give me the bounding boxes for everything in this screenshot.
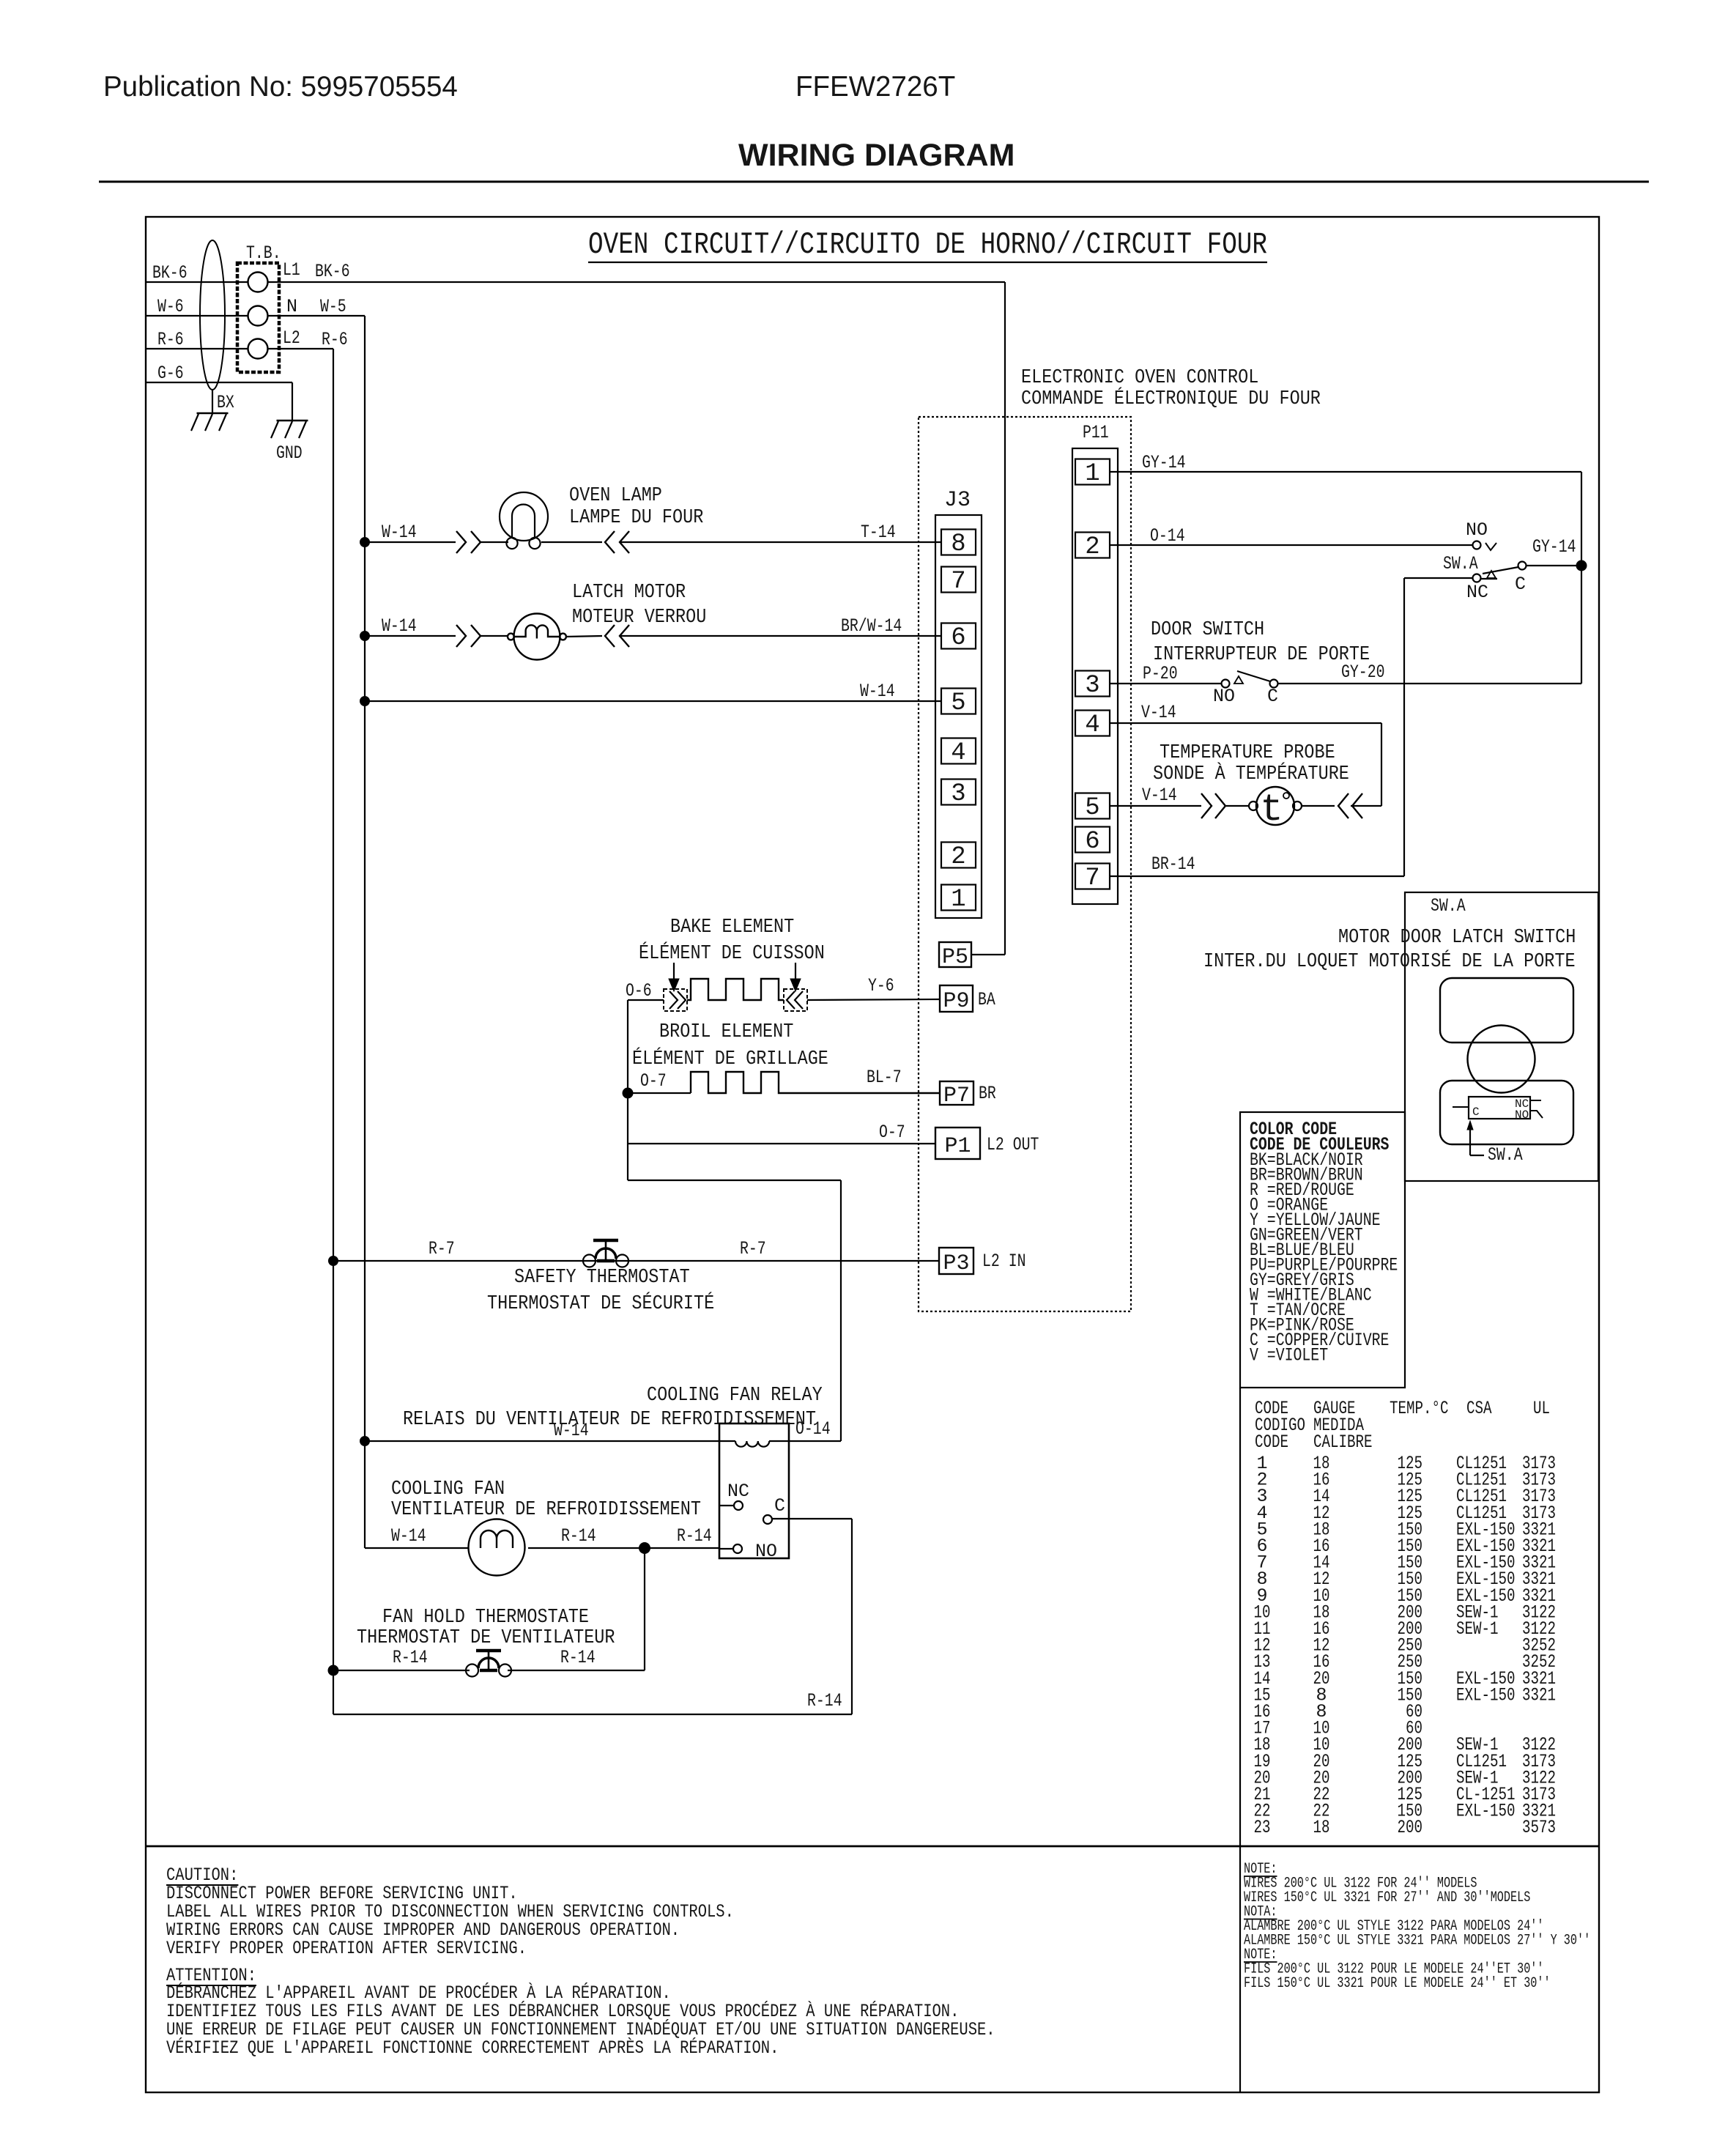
junction R-14 fan hold [328,1665,339,1676]
connector P5 [939,942,971,967]
svg-text:O-7: O-7 [879,1122,905,1143]
door switch NO terminal [1222,680,1230,688]
wire BR-14 [1110,875,1404,877]
wire BK-6 left [146,281,248,283]
svg-text:COOLING FAN RELAY: COOLING FAN RELAY [647,1385,823,1407]
svg-text:SW.A: SW.A [1488,1144,1523,1166]
svg-text:W-14: W-14 [554,1420,589,1441]
safety thermostat [583,1255,596,1267]
svg-text:R-14: R-14 [807,1690,842,1711]
svg-text:BX: BX [217,392,234,413]
J3 pin 2 [941,843,976,868]
wire R-14 vertical fan hold [644,1548,645,1670]
svg-text:SEW-1: SEW-1 [1456,1618,1499,1640]
wire lamp right [541,541,602,543]
svg-text:OVEN LAMP: OVEN LAMP [569,485,662,507]
J3 pin 5 [941,689,976,714]
svg-text:NC: NC [727,1481,749,1502]
relay contact NO [719,1548,733,1550]
svg-text:UL: UL [1533,1398,1550,1419]
wire BK-6 vertical down to P5 [1004,282,1006,955]
svg-text:R-7: R-7 [740,1238,766,1259]
svg-text:W-14: W-14 [391,1525,426,1547]
terminal N [248,306,268,326]
svg-text:C: C [774,1495,785,1517]
svg-text:EXL-150: EXL-150 [1456,1801,1516,1822]
ground BX [197,412,229,414]
electronic oven control dashed box [919,417,1131,1311]
svg-text:V-14: V-14 [1141,702,1176,723]
svg-text:NO: NO [755,1541,777,1562]
P11 pin 6 [1075,827,1110,853]
svg-text:BA: BA [978,989,995,1010]
wire W-14 to relay coil [365,1440,735,1442]
motor door latch switch box [1405,892,1598,1181]
svg-text:T-14: T-14 [861,522,896,543]
svg-text:GY-14: GY-14 [1142,452,1186,473]
connector << lamp [605,531,615,553]
P11 pin 1 [1075,459,1110,485]
svg-text:CSA: CSA [1466,1398,1492,1419]
wire G-6 down [292,382,293,421]
latch housing upper [1440,978,1573,1043]
svg-text:5: 5 [1085,794,1099,822]
svg-text:SONDE À TEMPÉRATURE: SONDE À TEMPÉRATURE [1153,762,1349,785]
junction broil element [623,1088,634,1099]
wire coil to O-14 vertical [769,1440,841,1442]
junction W-14 lamp [360,537,370,547]
svg-text:t: t [1260,788,1283,832]
J3 pin 3 [941,780,976,805]
connector P11 body [1072,448,1118,904]
wire R-14 vertical from C [851,1519,853,1714]
svg-text:P3: P3 [943,1251,969,1276]
wire R-14 fan hold left [333,1670,470,1671]
svg-text:MOTOR DOOR LATCH SWITCH: MOTOR DOOR LATCH SWITCH [1338,927,1576,949]
wire P-20 [1110,683,1222,684]
wire to latch motor [481,635,508,637]
svg-text:WIRES 150°C UL 3321 FOR 27'' A: WIRES 150°C UL 3321 FOR 27'' AND 30''MOD… [1244,1889,1530,1906]
wire R-6/R-7/R-14 vertical [333,349,334,1714]
svg-text:SW.A: SW.A [1431,895,1466,917]
terminal L1 [248,273,268,292]
svg-text:6: 6 [1085,828,1099,856]
svg-text:3573: 3573 [1522,1817,1556,1838]
svg-text:6: 6 [951,624,965,652]
svg-text:P11: P11 [1083,422,1109,443]
svg-text:NO: NO [1515,1108,1529,1122]
wire latch right [566,636,602,637]
svg-text:N: N [286,296,297,317]
wire W-6 left [146,315,248,316]
cooling fan relay box [719,1423,789,1558]
wire relay C right [772,1518,852,1519]
junction W-14 latch motor [360,631,370,641]
svg-text:P9: P9 [943,989,969,1014]
J3 pin 7 [941,567,976,593]
arrow to bake connector right [795,963,796,982]
svg-text:P1: P1 [944,1134,971,1159]
svg-text:ALAMBRE 150°C UL STYLE 3321 PA: ALAMBRE 150°C UL STYLE 3321 PARA MODELOS… [1244,1933,1590,1950]
title rule [99,181,1649,183]
arrow v SW.A [1485,543,1496,550]
svg-text:200: 200 [1398,1817,1423,1838]
svg-text:VERIFY PROPER OPERATION AFTER: VERIFY PROPER OPERATION AFTER SERVICING. [166,1938,527,1959]
svg-text:BAKE ELEMENT: BAKE ELEMENT [670,917,794,938]
svg-text:VENTILATEUR DE REFROIDISSEMENT: VENTILATEUR DE REFROIDISSEMENT [391,1499,701,1521]
svg-text:O-6: O-6 [626,980,652,1001]
wire L2 horizontal [628,1180,841,1181]
relay coil [735,1441,769,1447]
svg-text:R-14: R-14 [560,1647,596,1668]
svg-text:FILS 150°C UL 3321 POUR LE MOD: FILS 150°C UL 3321 POUR LE MODELE 24'' E… [1244,1975,1551,1992]
wire W-14 to J3 pin5 [365,700,941,702]
svg-text:W-6: W-6 [157,296,184,317]
broil element heating coil [691,1072,940,1093]
switch SW.A NC terminal [1473,574,1481,582]
wire NC stub SW.A [1481,578,1497,580]
svg-text:G-6: G-6 [157,363,184,384]
svg-text:2: 2 [1085,533,1099,561]
wire BK-6 to right [268,281,1005,283]
svg-text:THERMOSTAT DE SÉCURITÉ: THERMOSTAT DE SÉCURITÉ [487,1292,714,1315]
svg-text:BK-6: BK-6 [315,261,350,282]
svg-text:NO: NO [1213,686,1235,707]
wire to probe [1226,805,1249,807]
svg-text:GY-14: GY-14 [1532,536,1576,558]
svg-text:C: C [1267,686,1278,707]
junction GY-14 SW.A C [1576,560,1587,571]
svg-text:COOLING FAN: COOLING FAN [391,1478,505,1500]
svg-text:BR: BR [979,1083,996,1104]
svg-text:W-14: W-14 [382,522,417,543]
microswitch C lead [1453,1106,1469,1108]
svg-text:4: 4 [1085,711,1099,739]
svg-text:V =VIOLET: V =VIOLET [1250,1345,1328,1366]
oven lamp symbol [500,492,548,541]
svg-text:2: 2 [951,843,965,871]
svg-text:7: 7 [1085,864,1099,892]
svg-text:NO: NO [1466,519,1488,541]
svg-text:4: 4 [951,739,965,767]
svg-text:TEMPERATURE PROBE: TEMPERATURE PROBE [1160,742,1335,764]
outer border box [146,217,1599,2092]
latch motor rotor [1468,1026,1535,1093]
svg-text:GND: GND [276,443,303,464]
svg-text:SW.A: SW.A [1443,553,1478,574]
svg-text:7: 7 [951,568,965,596]
J3 pin 6 [941,623,976,649]
svg-text:1: 1 [1085,460,1099,488]
svg-text:R-6: R-6 [322,329,348,350]
wire to broil element [628,1092,691,1094]
svg-text:RELAIS DU VENTILATEUR DE REFRO: RELAIS DU VENTILATEUR DE REFROIDISSEMENT [403,1409,816,1431]
P11 pin 7 [1075,864,1110,889]
svg-text:3: 3 [951,780,965,808]
svg-text:MOTEUR VERROU: MOTEUR VERROU [572,607,706,629]
svg-text:ÉLÉMENT DE GRILLAGE: ÉLÉMENT DE GRILLAGE [632,1047,828,1070]
switch SW.A C terminal [1518,562,1527,570]
temperature probe symbol t [1249,801,1258,810]
svg-text:W-14: W-14 [860,681,895,702]
wire R-14 fan to relay NO [528,1547,719,1549]
wire L2 vertical bake/broil [627,1000,628,1180]
wire R-6 left [146,348,248,349]
latch motor symbol [514,614,560,660]
svg-text:L2 IN: L2 IN [982,1251,1026,1272]
svg-text:BROIL ELEMENT: BROIL ELEMENT [659,1021,793,1043]
door switch C terminal [1270,680,1278,688]
connector J3 body [935,515,982,918]
wire G-6 [146,382,292,383]
svg-text:FAN HOLD THERMOSTATE: FAN HOLD THERMOSTATE [382,1607,589,1629]
svg-text:P5: P5 [942,945,968,970]
svg-text:CALIBRE: CALIBRE [1313,1432,1373,1453]
wire GY-14 vertical right [1581,472,1582,684]
pivot triangle SW.A [1487,571,1496,578]
wire W-14 lamp [365,541,456,543]
svg-text:FFEW2726T: FFEW2726T [795,71,955,103]
wire SW.A C to GY-14 [1527,565,1581,566]
svg-text:R-6: R-6 [157,329,184,350]
svg-text:V-14: V-14 [1142,785,1177,806]
cooling fan symbol [469,1519,525,1576]
wire BR/W-14 [620,635,941,637]
svg-text:W-5: W-5 [320,296,346,317]
svg-text:BL-7: BL-7 [867,1067,902,1088]
wire to V-14 vertical [1351,805,1381,807]
wire W-14 to fan [365,1547,469,1549]
svg-text:C: C [1472,1106,1480,1119]
svg-text:J3: J3 [944,488,971,513]
svg-text:R-14: R-14 [561,1525,596,1547]
connector P7 [940,1081,973,1105]
wire to lamp [481,541,508,543]
svg-text:R-14: R-14 [677,1525,712,1547]
bake element connector right [784,989,807,1011]
svg-text:T.B.: T.B. [246,242,281,264]
svg-text:Publication No: 5995705554: Publication No: 5995705554 [103,71,458,103]
svg-text:Y-6: Y-6 [868,975,894,996]
wire O-14 vertical [840,1180,842,1441]
svg-text:OVEN CIRCUIT//CIRCUITO DE HORN: OVEN CIRCUIT//CIRCUITO DE HORNO//CIRCUIT… [588,227,1267,262]
svg-text:ELECTRONIC OVEN CONTROL: ELECTRONIC OVEN CONTROL [1021,367,1258,389]
svg-text:L1: L1 [283,259,300,281]
terminal L2 [248,339,268,359]
svg-text:3: 3 [1085,672,1099,700]
cable bundle BX loop [200,240,225,390]
svg-text:R-7: R-7 [429,1238,455,1259]
SW.A pointer arrow [1469,1129,1471,1155]
ground GND [277,420,308,421]
relay contact C [763,1515,772,1524]
svg-text:ÉLÉMENT DE CUISSON: ÉLÉMENT DE CUISSON [639,941,825,965]
connector << latch [605,625,615,647]
svg-text:DOOR SWITCH: DOOR SWITCH [1151,619,1264,641]
svg-text:L2 OUT: L2 OUT [987,1134,1039,1155]
svg-text:INTER.DU LOQUET MOTORISÉ DE LA: INTER.DU LOQUET MOTORISÉ DE LA PORTE [1203,949,1576,973]
svg-text:P-20: P-20 [1143,663,1178,684]
svg-text:W-14: W-14 [382,615,417,637]
svg-text:INTERRUPTEUR DE PORTE: INTERRUPTEUR DE PORTE [1153,644,1370,666]
switch SW.A NO terminal [1473,541,1481,549]
J3 pin 8 [941,530,976,555]
svg-text:8: 8 [951,530,965,558]
wire 0-7 to P1 [628,1143,935,1144]
connector P9 [940,985,973,1012]
J3 pin 4 [941,738,976,764]
connector >> lamp [456,531,466,553]
wire W-14 latch motor [365,635,456,637]
P11 pin 4 [1075,711,1110,736]
wire BX stem [212,390,213,413]
svg-text:COMMANDE ÉLECTRONIQUE DU FOUR: COMMANDE ÉLECTRONIQUE DU FOUR [1021,387,1321,410]
latch housing lower [1440,1081,1573,1144]
svg-text:NC: NC [1466,582,1488,603]
junction W-14 J3-5 [360,696,370,706]
wire P5 to BK-6 vertical [971,954,1005,955]
svg-text:O-14: O-14 [1150,525,1185,547]
svg-text:1: 1 [951,886,965,914]
connector >> probe [1201,793,1212,818]
bake element connector left [664,989,687,1011]
connector P3 [939,1248,973,1274]
connector >> latch [456,625,466,647]
wire O-14 to SW.A NO [1110,544,1472,546]
connector << probe [1338,793,1349,818]
pivot triangle door switch [1234,676,1243,684]
svg-text:18: 18 [1313,1817,1330,1838]
svg-text:CODE: CODE [1255,1432,1288,1453]
wire R-7 L2 IN [333,1260,939,1262]
switch blade SW.A [1483,567,1518,574]
wire 0-6 to bake element [628,999,664,1001]
wire V-14 pin4 [1110,722,1381,724]
wire V-14 vertical [1381,723,1382,806]
color code box [1240,1112,1405,1388]
wire V-14 pin5 [1110,805,1201,807]
svg-text:THERMOSTAT DE VENTILATEUR: THERMOSTAT DE VENTILATEUR [357,1627,615,1649]
junction R-7 safety thermostat [328,1256,338,1266]
svg-text:GY-20: GY-20 [1341,662,1385,683]
svg-text:EXL-150: EXL-150 [1456,1684,1516,1706]
svg-text:WIRING DIAGRAM: WIRING DIAGRAM [738,138,1014,173]
svg-text:VÉRIFIEZ QUE L'APPAREIL FONCTI: VÉRIFIEZ QUE L'APPAREIL FONCTIONNE CORRE… [166,2037,779,2059]
P11 pin 2 [1075,533,1110,558]
table/note left edge [1239,1388,1241,2092]
svg-text:O-14: O-14 [795,1418,831,1440]
wire GY-20 [1278,683,1581,684]
wire W-5 horizontal [268,315,365,316]
svg-text:23: 23 [1254,1817,1271,1838]
bake element heating coil [687,979,784,1000]
svg-text:L2: L2 [283,327,300,349]
svg-text:5: 5 [951,689,965,717]
svg-text:BR-14: BR-14 [1151,854,1195,875]
door switch blade [1237,671,1270,681]
svg-text:3321: 3321 [1522,1684,1556,1706]
svg-text:LATCH MOTOR: LATCH MOTOR [572,582,686,604]
P11 pin 3 [1075,671,1110,697]
wire BR-14 vertical [1403,578,1405,876]
P11 pin 5 [1075,793,1110,819]
fan hold thermostat [466,1665,478,1677]
arrow to bake connector left [673,963,675,982]
wire R-14 fan hold right [508,1670,645,1671]
svg-text:C: C [1515,574,1526,595]
wire probe right [1302,805,1335,807]
svg-text:P7: P7 [943,1084,970,1108]
svg-text:TEMP.°C: TEMP.°C [1390,1398,1449,1419]
junction W-14 relay coil [360,1436,370,1446]
latch microswitch box [1469,1097,1530,1119]
wire NC to BR-14 vertical [1404,577,1473,579]
wire W-5/W-14 vertical [364,316,366,1548]
wire Y-6 to P9 [807,999,940,1000]
svg-text:SAFETY THERMOSTAT: SAFETY THERMOSTAT [514,1267,690,1289]
svg-text:BR/W-14: BR/W-14 [841,615,902,637]
svg-text:O-7: O-7 [640,1070,667,1092]
svg-text:BK-6: BK-6 [152,262,188,284]
circuit title underline [588,262,1267,263]
terminal block T.B. [237,263,279,372]
wire T-14 [620,541,941,543]
relay contact NC [719,1505,734,1506]
microswitch NO lead [1530,1111,1543,1118]
microswitch NC lead [1530,1100,1541,1101]
junction R-14 fan hold [639,1542,650,1554]
wire R-6 horizontal [268,348,333,349]
wire R-14 bottom [333,1714,852,1715]
connector P1 [935,1128,980,1159]
svg-text:LAMPE DU FOUR: LAMPE DU FOUR [569,507,703,529]
wire GY-14 [1110,471,1581,473]
J3 pin 1 [941,885,976,911]
table bottom / caution top divider [146,1845,1598,1848]
svg-text:R-14: R-14 [393,1647,428,1668]
